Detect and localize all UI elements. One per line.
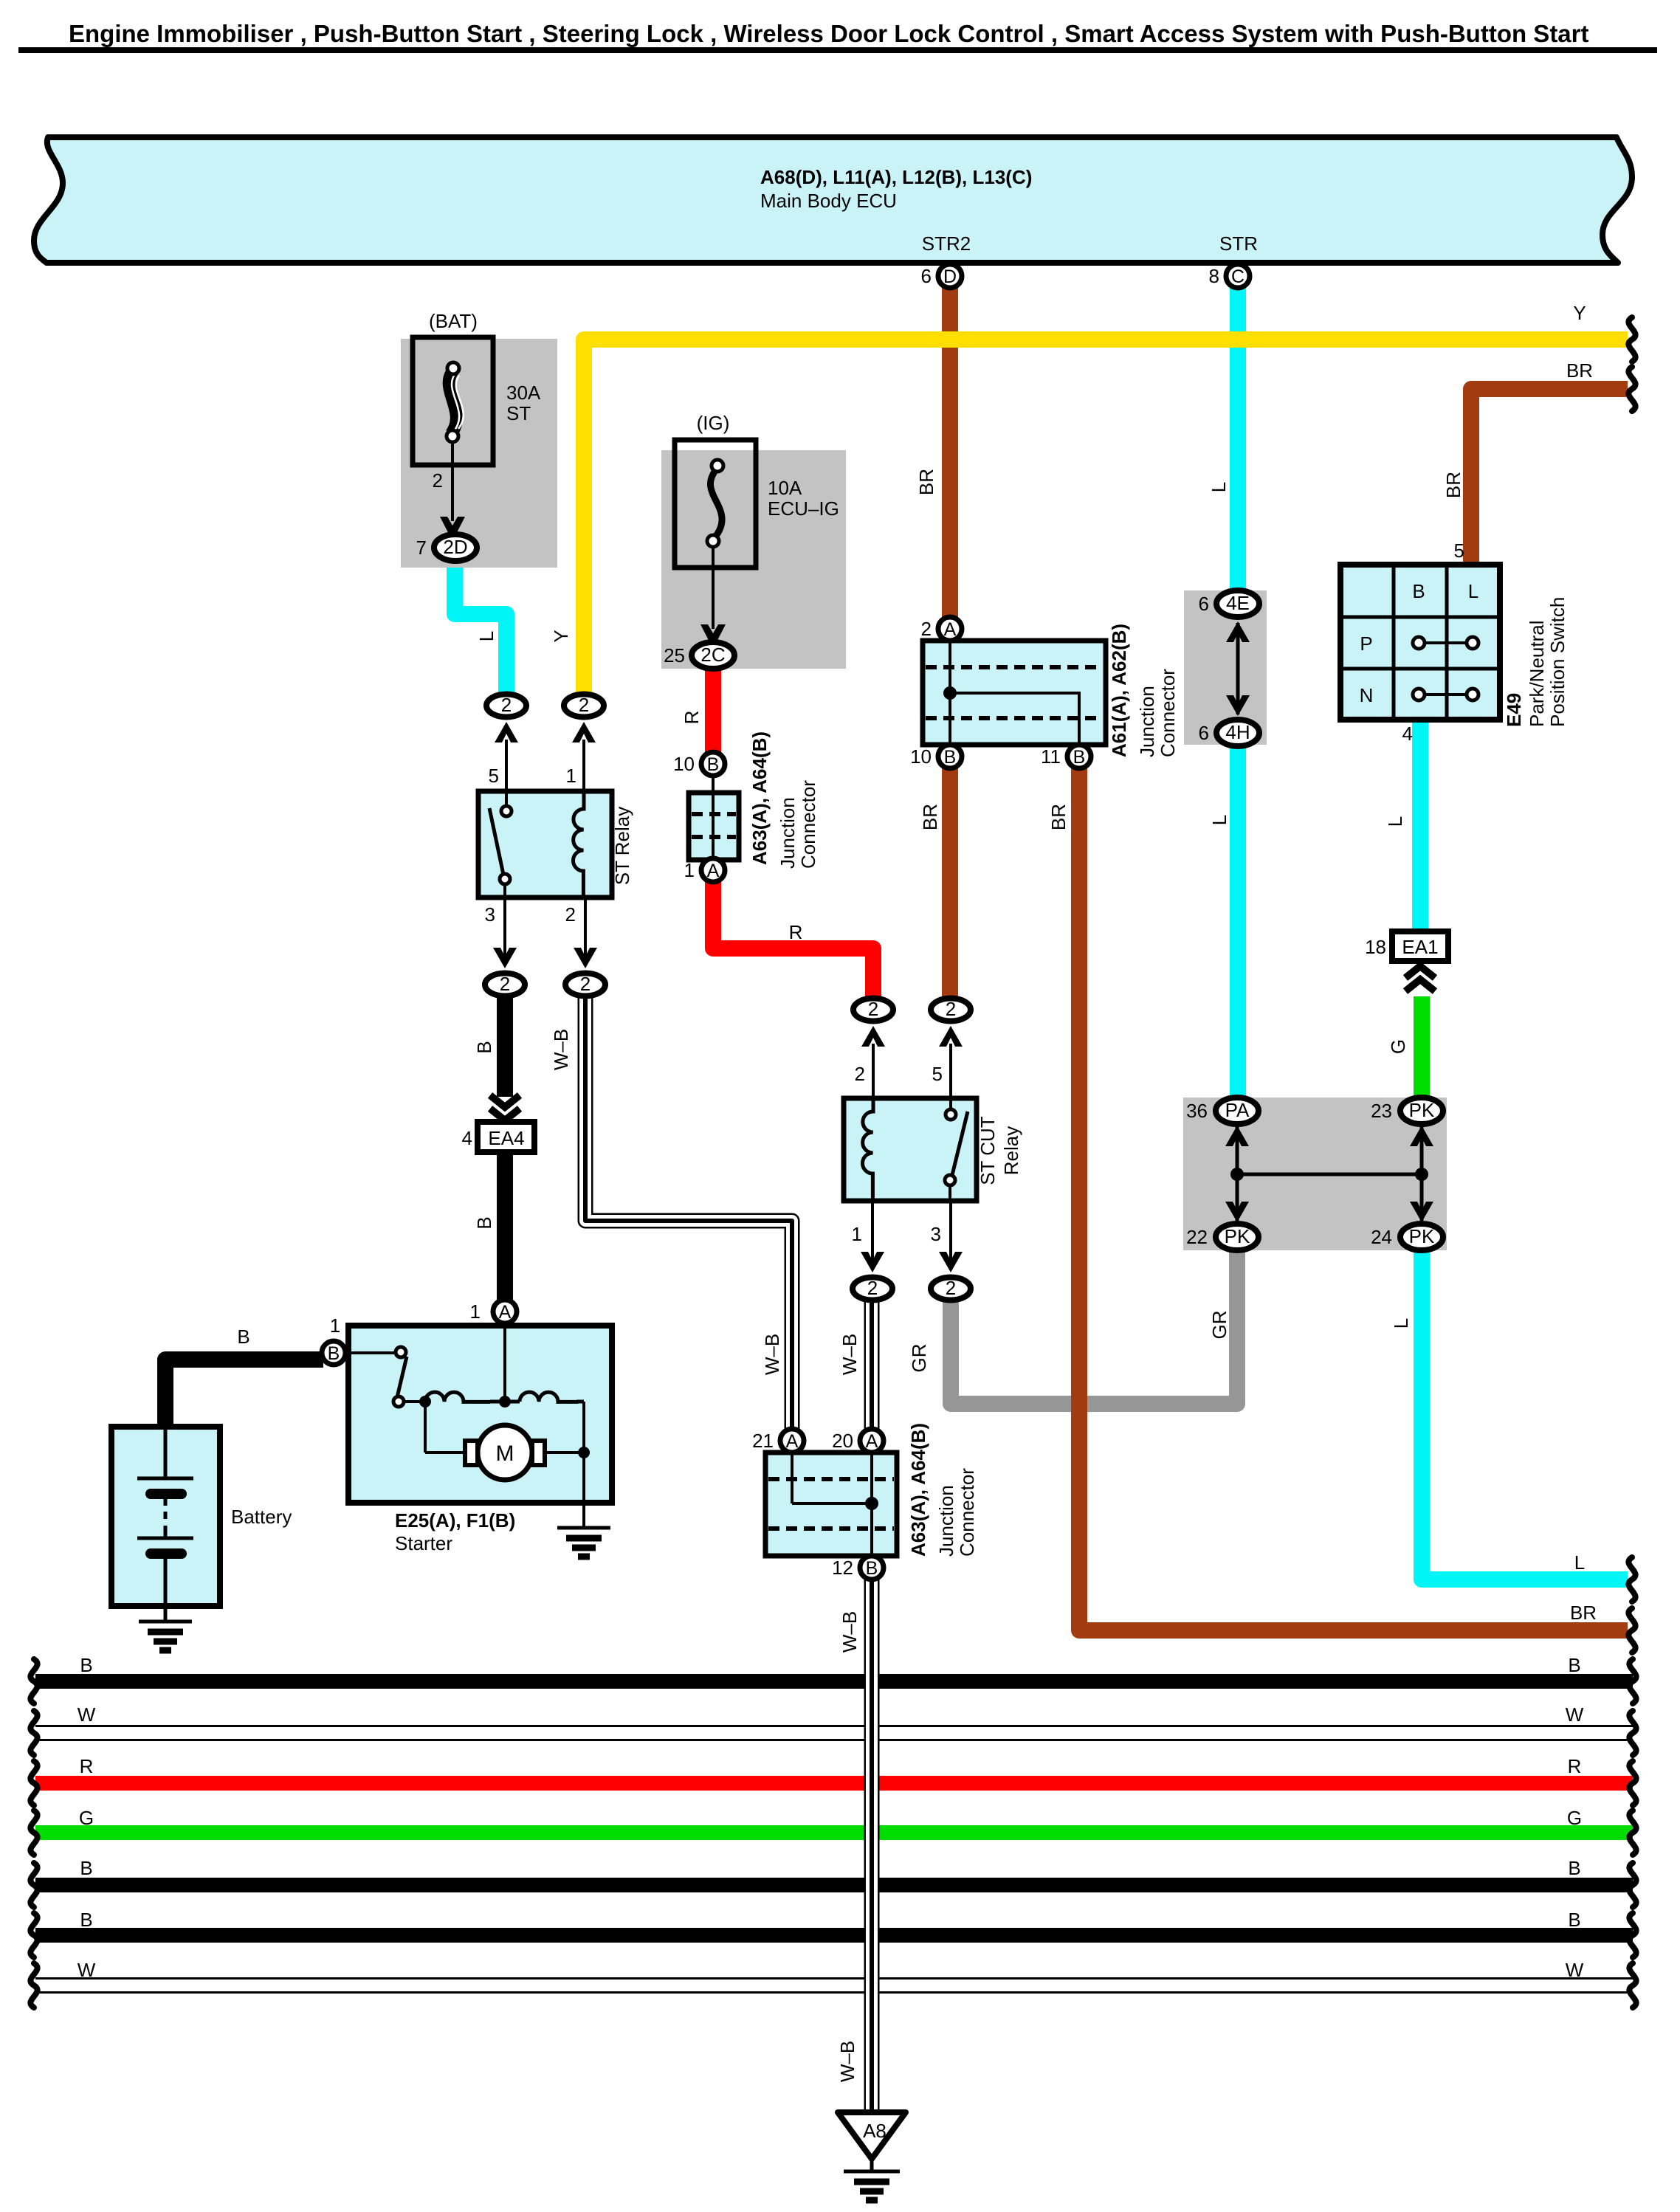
label W bus xyxy=(1566,1959,1584,1981)
wire Y yellow ST relay pin1 connector up and right to edge tear xyxy=(584,340,1628,697)
svg-text:A68(D), L11(A), L12(B), L13(C): A68(D), L11(A), L12(B), L13(C) xyxy=(760,166,1032,188)
svg-text:L: L xyxy=(1208,482,1230,492)
svg-text:B: B xyxy=(1568,1654,1580,1676)
wire G green from EA1 to PK23 xyxy=(1414,996,1430,1105)
tear mark brown wire bottom right end xyxy=(1628,1608,1635,1653)
svg-text:Starter: Starter xyxy=(395,1532,452,1554)
svg-text:ECU–IG: ECU–IG xyxy=(768,497,839,520)
label B bus xyxy=(80,1654,92,1676)
svg-text:Y: Y xyxy=(1573,302,1586,324)
relay ST Relay xyxy=(478,791,633,897)
svg-text:A: A xyxy=(786,1431,799,1452)
svg-text:1: 1 xyxy=(330,1315,340,1337)
connector 2 below ST CUT relay pin1 xyxy=(852,1201,892,1300)
switch E49 Park/Neutral Position Switch xyxy=(1340,540,1569,745)
svg-text:EA4: EA4 xyxy=(488,1127,524,1149)
connector 2C of fuse box xyxy=(664,642,734,669)
connector EA1 box 18 xyxy=(1365,931,1448,961)
svg-text:Junction: Junction xyxy=(1136,686,1158,757)
svg-text:BR: BR xyxy=(1566,359,1593,382)
connector PA terminal 36 xyxy=(1186,1098,1259,1124)
wire B black EA4 to starter A xyxy=(497,1151,513,1300)
svg-text:A63(A), A64(B): A63(A), A64(B) xyxy=(748,731,771,865)
title: system heading xyxy=(69,20,1589,47)
label R bus xyxy=(1568,1755,1582,1777)
label L wire xyxy=(1390,1318,1412,1329)
svg-text:A: A xyxy=(866,1431,878,1452)
svg-text:R: R xyxy=(80,1755,94,1777)
wire L cyan ECU C STR down to 4E xyxy=(1230,286,1246,593)
svg-text:23: 23 xyxy=(1371,1100,1392,1122)
svg-text:N: N xyxy=(1360,684,1374,706)
junction connector A61(A), A62(B) xyxy=(923,624,1179,757)
svg-text:Connector: Connector xyxy=(797,780,819,869)
connector 2 below ST CUT relay pin3 xyxy=(931,1201,971,1300)
svg-text:ST: ST xyxy=(506,402,531,424)
svg-text:B: B xyxy=(80,1909,92,1931)
svg-text:STR: STR xyxy=(1219,232,1258,255)
svg-text:2: 2 xyxy=(579,694,589,716)
svg-text:Junction: Junction xyxy=(777,797,799,869)
connector 2 below ST relay pin2 xyxy=(565,897,605,996)
connector PA PK gray block xyxy=(1183,1098,1447,1250)
bus wire W horizontal y=2348 xyxy=(35,1726,1633,1740)
svg-text:PA: PA xyxy=(1225,1099,1250,1121)
svg-text:Junction: Junction xyxy=(935,1485,957,1557)
bus wire B horizontal y=2278 xyxy=(35,1674,1633,1689)
svg-text:2: 2 xyxy=(867,1277,878,1299)
node B terminal 10 of junction connector xyxy=(673,752,725,776)
svg-text:2: 2 xyxy=(946,1277,956,1299)
svg-text:E49: E49 xyxy=(1503,693,1525,727)
svg-text:2C: 2C xyxy=(700,644,725,666)
svg-text:BR: BR xyxy=(915,469,937,495)
connector PK terminal 24 xyxy=(1371,1224,1443,1250)
node D terminal 6 STR2 of ECU xyxy=(921,232,971,288)
svg-text:5: 5 xyxy=(489,765,499,787)
svg-text:B: B xyxy=(707,754,720,775)
svg-text:36: 36 xyxy=(1186,1100,1208,1122)
node B terminal 12 of junction connector xyxy=(832,1556,884,1579)
svg-text:4: 4 xyxy=(462,1127,472,1149)
svg-text:GR: GR xyxy=(908,1344,930,1373)
node B terminal 11 of junction connector xyxy=(1041,745,1091,768)
svg-text:2: 2 xyxy=(921,618,932,640)
svg-text:A61(A), A62(B): A61(A), A62(B) xyxy=(1108,624,1130,757)
battery xyxy=(111,1427,292,1621)
ground below battery xyxy=(139,1622,192,1650)
node A terminal 1 of junction connector xyxy=(684,858,725,882)
svg-text:W–B: W–B xyxy=(839,1611,861,1653)
svg-text:4: 4 xyxy=(1402,723,1413,745)
wire R red fuse 2C to junction B10 xyxy=(705,664,721,754)
bus wire B horizontal y=2554 xyxy=(35,1878,1633,1892)
svg-text:2: 2 xyxy=(500,973,510,995)
svg-text:B: B xyxy=(473,1041,495,1053)
svg-text:B: B xyxy=(328,1343,340,1364)
svg-text:3: 3 xyxy=(931,1223,941,1245)
svg-text:B: B xyxy=(80,1857,92,1879)
svg-text:PK: PK xyxy=(1409,1099,1435,1121)
connector EA1 double chevron xyxy=(1405,966,1435,991)
label G bus xyxy=(79,1807,94,1829)
svg-text:2: 2 xyxy=(565,903,576,926)
svg-text:W–B: W–B xyxy=(836,2041,858,2082)
svg-text:L: L xyxy=(1574,1551,1585,1574)
starter E25(A), F1(B) xyxy=(345,1323,612,1554)
wire GR gray from ST CUT relay pin3 connector to PK22 xyxy=(951,1246,1237,1404)
svg-text:4H: 4H xyxy=(1225,721,1250,743)
svg-text:2: 2 xyxy=(946,998,956,1020)
svg-text:Connector: Connector xyxy=(956,1468,978,1557)
svg-text:22: 22 xyxy=(1186,1226,1208,1248)
label B bus xyxy=(80,1909,92,1931)
label R wire xyxy=(681,711,703,725)
label BR wire xyxy=(1047,804,1070,830)
ground A8 xyxy=(838,2112,906,2200)
svg-text:W: W xyxy=(78,1959,96,1981)
fuse 30A ST (BAT) xyxy=(401,310,557,568)
svg-text:B: B xyxy=(1568,1857,1580,1879)
wire BR brown right edge to E49 pin5 xyxy=(1471,389,1628,564)
wire W-B ST CUT relay pin1 connector to junction A20 xyxy=(864,1302,880,1430)
label BR wire xyxy=(1442,472,1464,498)
wire W-B ST relay pin2 connector to junction A21 xyxy=(585,995,792,1430)
node B terminal 10 of junction connector xyxy=(910,745,962,768)
svg-text:7: 7 xyxy=(416,537,427,559)
tear marks right edge of bus wires xyxy=(1629,1659,1636,2008)
svg-text:18: 18 xyxy=(1365,936,1386,958)
svg-text:G: G xyxy=(1567,1807,1582,1829)
connector 2 below ST relay pin3 xyxy=(485,897,525,996)
svg-text:A: A xyxy=(499,1302,512,1323)
connector 4E terminal 6 xyxy=(1199,590,1259,617)
svg-text:B: B xyxy=(944,747,957,768)
svg-text:10: 10 xyxy=(910,745,932,768)
connector 4E 4H gray block xyxy=(1184,590,1267,745)
relay ST CUT Relay xyxy=(844,1098,1022,1201)
svg-text:P: P xyxy=(1360,633,1372,655)
connector EA4 double chevron xyxy=(490,1095,520,1120)
svg-text:BR: BR xyxy=(1570,1602,1597,1624)
svg-text:Relay: Relay xyxy=(1000,1126,1022,1175)
svg-text:Battery: Battery xyxy=(231,1506,292,1528)
label L wire xyxy=(1384,816,1406,827)
bus wire R horizontal y=2416 xyxy=(35,1776,1633,1791)
svg-text:(BAT): (BAT) xyxy=(429,310,478,332)
tear marks left edge of bus wires xyxy=(30,1659,37,2008)
svg-text:Position Switch: Position Switch xyxy=(1546,597,1569,727)
node C terminal 8 STR of ECU xyxy=(1209,232,1258,288)
svg-text:R: R xyxy=(681,711,703,725)
tear mark brown wire top right end xyxy=(1628,367,1635,411)
svg-text:6: 6 xyxy=(1199,722,1209,744)
label BR bus xyxy=(1566,359,1593,382)
connector 2 on yellow wire above ST relay pin1 xyxy=(564,694,604,791)
label BR wire xyxy=(919,804,941,830)
bus wire W horizontal y=2690 xyxy=(35,1979,1633,1993)
svg-text:10A: 10A xyxy=(768,477,802,499)
connector PK terminal 23 xyxy=(1371,1098,1443,1124)
svg-text:10: 10 xyxy=(673,753,695,775)
svg-text:Y: Y xyxy=(550,630,572,642)
label GR wire xyxy=(1208,1311,1230,1340)
svg-text:BR: BR xyxy=(1442,472,1464,498)
label BR bus xyxy=(1570,1602,1597,1624)
svg-text:2D: 2D xyxy=(443,536,467,558)
svg-text:B: B xyxy=(473,1216,495,1229)
connector 4H terminal 6 xyxy=(1199,720,1259,746)
fuse 10A ECU-IG (IG) xyxy=(661,412,846,669)
svg-text:30A: 30A xyxy=(506,382,541,404)
svg-text:GR: GR xyxy=(1208,1311,1230,1340)
svg-text:3: 3 xyxy=(485,903,495,926)
svg-text:12: 12 xyxy=(832,1557,853,1579)
svg-text:W: W xyxy=(78,1703,96,1726)
svg-text:B: B xyxy=(1568,1909,1580,1931)
label R red wire horizontal xyxy=(789,921,803,943)
svg-text:EA1: EA1 xyxy=(1402,936,1438,958)
svg-text:G: G xyxy=(79,1807,94,1829)
label W–B wire xyxy=(836,2041,858,2082)
svg-text:R: R xyxy=(789,921,803,943)
label L wire xyxy=(1208,815,1230,825)
label B on battery wire xyxy=(237,1326,249,1348)
node A terminal 20 of junction connector xyxy=(832,1429,884,1453)
svg-text:PK: PK xyxy=(1225,1225,1250,1247)
svg-text:L: L xyxy=(1384,816,1406,827)
svg-text:B: B xyxy=(1412,580,1425,602)
svg-text:STR2: STR2 xyxy=(922,232,971,255)
wire L cyan fuse 2D to ST relay pin5 connector xyxy=(455,558,506,695)
svg-text:W–B: W–B xyxy=(839,1334,861,1375)
label GR wire xyxy=(908,1344,930,1373)
label B bus xyxy=(1568,1654,1580,1676)
label W–B wire xyxy=(761,1334,783,1375)
svg-text:1: 1 xyxy=(566,765,576,787)
ground below starter xyxy=(557,1528,610,1557)
wire BR brown junction B11 down and right to edge tear xyxy=(1079,768,1628,1630)
svg-text:25: 25 xyxy=(664,644,685,666)
svg-text:20: 20 xyxy=(832,1430,853,1452)
bus wire B horizontal y=2622 xyxy=(35,1928,1633,1943)
connector 2 on brown wire above ST CUT relay pin5 xyxy=(931,998,971,1100)
svg-text:C: C xyxy=(1231,266,1244,287)
junction connector A63(A), A64(B) upper xyxy=(689,731,819,869)
label W–B wire xyxy=(839,1334,861,1375)
ECU A68(D), L11(A), L12(B), L13(C) Main Body ECU box xyxy=(34,137,1632,263)
svg-text:B: B xyxy=(237,1326,249,1348)
svg-text:E25(A), F1(B): E25(A), F1(B) xyxy=(395,1509,515,1531)
label L wire xyxy=(1208,482,1230,492)
svg-text:D: D xyxy=(943,266,957,287)
label G wire xyxy=(1387,1039,1409,1054)
svg-text:W: W xyxy=(1566,1959,1584,1981)
connector 2 on red wire above ST CUT relay pin2 xyxy=(853,998,893,1100)
wire L cyan E49 pin4 down to EA1 xyxy=(1412,717,1428,928)
svg-text:BR: BR xyxy=(1047,804,1070,830)
svg-text:L: L xyxy=(1208,815,1230,825)
svg-text:24: 24 xyxy=(1371,1226,1392,1248)
svg-text:M: M xyxy=(496,1441,514,1466)
label BR wire xyxy=(915,469,937,495)
tear mark yellow wire right end xyxy=(1628,317,1635,362)
label B bus xyxy=(1568,1857,1580,1879)
svg-text:2: 2 xyxy=(580,973,591,995)
svg-text:B: B xyxy=(1073,747,1086,768)
svg-text:1: 1 xyxy=(684,859,695,881)
svg-text:Park/Neutral: Park/Neutral xyxy=(1526,621,1548,728)
svg-text:2: 2 xyxy=(855,1063,865,1085)
label W–B wire xyxy=(550,1029,572,1070)
svg-text:W: W xyxy=(1566,1703,1584,1726)
wire W-B junction B12 down to ground A8 xyxy=(864,1578,880,2109)
svg-text:5: 5 xyxy=(1454,540,1464,562)
svg-text:4E: 4E xyxy=(1226,592,1250,614)
svg-text:L: L xyxy=(475,631,498,641)
connector 2 on cyan wire above ST relay pin5 xyxy=(486,694,526,791)
label W bus xyxy=(78,1959,96,1981)
svg-text:1: 1 xyxy=(470,1300,481,1323)
svg-text:ST CUT: ST CUT xyxy=(977,1116,999,1185)
svg-text:6: 6 xyxy=(1199,593,1209,615)
svg-text:A: A xyxy=(707,861,720,881)
svg-text:2: 2 xyxy=(501,694,512,716)
node A terminal 2 of junction connector xyxy=(921,617,962,641)
svg-text:R: R xyxy=(1568,1755,1582,1777)
label G bus xyxy=(1567,1807,1582,1829)
connector EA4 box 4 xyxy=(462,1122,534,1152)
title underline rule xyxy=(18,47,1657,53)
wire R red junction A1 to ST CUT relay pin2 connector xyxy=(713,880,873,1005)
label W bus xyxy=(78,1703,96,1726)
wire BR brown ECU D STR2 down to junction A2 xyxy=(942,286,958,621)
connector 2D of fuse box xyxy=(416,534,477,561)
svg-text:W–B: W–B xyxy=(550,1029,572,1070)
label W bus xyxy=(1566,1703,1584,1726)
svg-text:A63(A), A64(B): A63(A), A64(B) xyxy=(907,1423,929,1557)
svg-text:G: G xyxy=(1387,1039,1409,1054)
label L wire xyxy=(475,631,498,641)
label B wire xyxy=(473,1041,495,1053)
svg-text:L: L xyxy=(1390,1318,1412,1329)
svg-text:L: L xyxy=(1468,580,1478,602)
label B wire xyxy=(473,1216,495,1229)
connector PK terminal 22 xyxy=(1186,1224,1259,1250)
svg-text:1: 1 xyxy=(852,1223,862,1245)
svg-text:6: 6 xyxy=(921,265,932,287)
node B terminal 1 of starter xyxy=(322,1315,345,1365)
svg-text:A8: A8 xyxy=(863,2120,887,2142)
svg-text:Main Body ECU: Main Body ECU xyxy=(760,190,897,212)
svg-text:Connector: Connector xyxy=(1157,669,1179,757)
label B bus xyxy=(80,1857,92,1879)
label B bus xyxy=(1568,1909,1580,1931)
bus wire G horizontal y=2483 xyxy=(35,1825,1633,1840)
svg-text:W–B: W–B xyxy=(761,1334,783,1375)
svg-text:2: 2 xyxy=(868,998,878,1020)
wire L cyan 4H down to PA36 xyxy=(1230,743,1246,1101)
wire BR brown junction B10 down to ST CUT relay pin5 connector xyxy=(942,768,958,1005)
svg-text:5: 5 xyxy=(932,1063,943,1085)
svg-text:2: 2 xyxy=(433,469,443,492)
svg-text:11: 11 xyxy=(1041,745,1061,768)
svg-text:B: B xyxy=(80,1654,92,1676)
node A terminal 21 of junction connector xyxy=(752,1429,804,1453)
svg-text:PK: PK xyxy=(1409,1225,1435,1247)
junction connector A63(A), A64(B) lower xyxy=(765,1423,978,1557)
svg-text:8: 8 xyxy=(1209,265,1219,287)
wire B black ST relay pin3 connector to EA4 xyxy=(497,995,513,1097)
label Y bus xyxy=(1573,302,1586,324)
label W–B wire xyxy=(839,1611,861,1653)
node A terminal 1 of starter xyxy=(470,1300,517,1323)
svg-text:A: A xyxy=(944,619,957,640)
svg-text:B: B xyxy=(866,1558,878,1579)
label R bus xyxy=(80,1755,94,1777)
svg-text:(IG): (IG) xyxy=(697,412,730,434)
label L bus xyxy=(1574,1551,1585,1574)
wire L cyan PK24 down and right to edge tear xyxy=(1422,1247,1628,1579)
tear mark cyan wire bottom right end xyxy=(1628,1557,1635,1602)
wire B black battery to starter B xyxy=(165,1360,323,1429)
svg-text:21: 21 xyxy=(752,1430,774,1452)
svg-text:ST Relay: ST Relay xyxy=(611,807,633,885)
label Y wire xyxy=(550,630,572,642)
svg-text:Engine Immobiliser , Push-Butt: Engine Immobiliser , Push-Button Start ,… xyxy=(69,20,1589,47)
svg-text:BR: BR xyxy=(919,804,941,830)
